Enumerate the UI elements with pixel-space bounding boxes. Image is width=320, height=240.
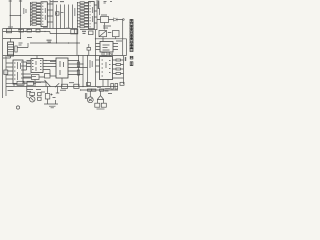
label R6 value <box>37 17 40 19</box>
resistor R19b <box>36 29 40 32</box>
label under K <box>97 108 105 110</box>
wire bus H2 <box>50 32 77 34</box>
resistor R5 <box>32 14 36 16</box>
wire U1 right pins <box>47 4 53 22</box>
label U2 pin numbers <box>90 3 93 27</box>
label 220V <box>8 90 14 92</box>
label R21 <box>32 76 36 78</box>
node J9 <box>87 55 88 56</box>
resistor R8 <box>32 23 36 25</box>
label below relay <box>103 26 111 28</box>
node terminal T1 <box>123 19 125 21</box>
wire main bus H1 <box>3 31 50 33</box>
wire U5 bottom lead <box>61 78 63 87</box>
label R14 value <box>85 17 88 19</box>
wire mid vertical D <box>68 5 70 29</box>
resistor R22 <box>77 62 79 67</box>
wire U6 bottom pins <box>103 80 108 87</box>
label K1 <box>101 14 107 16</box>
label under S <box>27 90 45 93</box>
wire left vertical V1 <box>9 0 12 30</box>
resistor R25 <box>116 64 121 66</box>
wire crystal <box>88 44 90 56</box>
wire battery link <box>17 43 28 48</box>
label R15 value <box>85 20 88 22</box>
label R4 value <box>37 11 40 13</box>
wire mid vertical A <box>56 5 58 29</box>
node J15 <box>82 86 83 87</box>
wire C7 leads <box>44 87 58 105</box>
resistor R14 <box>80 17 84 19</box>
label R5 value <box>37 14 40 16</box>
wire mid-bottom vertical c <box>87 56 89 87</box>
label page marker <box>125 57 127 61</box>
label K2 <box>108 32 112 34</box>
wire U3 pins <box>96 44 119 50</box>
terminal circle bottom <box>16 106 19 109</box>
wire left vertical V2 <box>19 0 22 34</box>
node J0 <box>10 15 11 16</box>
label R7 value <box>37 20 40 22</box>
op-amp U5 <box>56 58 68 78</box>
label bottom far <box>108 93 112 95</box>
resistor R17 <box>80 26 84 28</box>
resistor R30 <box>88 89 92 91</box>
wire U5 right pins <box>68 61 88 75</box>
transistor Q1 <box>30 97 35 102</box>
node J2 <box>25 31 26 32</box>
op-amp U4 <box>13 60 23 84</box>
wire battery bottom <box>3 56 11 58</box>
label C1 <box>61 12 64 14</box>
resistor R1 <box>32 2 36 4</box>
wire U4b top <box>36 56 38 59</box>
diode D1 <box>114 18 118 21</box>
node J10 <box>95 55 96 56</box>
wire U1 right bus <box>41 0 77 29</box>
label C2 <box>66 27 70 29</box>
capacitor C2b <box>89 31 94 35</box>
resistor R26 <box>116 68 121 70</box>
wire far-left vertical <box>2 29 4 99</box>
wire battery top <box>3 34 21 43</box>
wire right vertical G <box>126 39 128 56</box>
switch S2 <box>27 81 34 85</box>
caption vertical text column <box>130 19 133 65</box>
capacitor C4 <box>113 31 120 37</box>
wire U1 left bus <box>31 2 42 26</box>
wire to terminal <box>97 19 123 21</box>
node U1 row 4 <box>30 21 31 22</box>
node U1 row 1 <box>30 3 31 4</box>
node J16 <box>95 38 96 39</box>
ground G1 <box>49 106 56 108</box>
label R10 value <box>85 5 88 7</box>
crystal X1 <box>87 48 91 51</box>
node J1 <box>20 15 21 16</box>
resistor R6 <box>32 17 36 19</box>
wire mid vertical D2 <box>72 5 74 29</box>
label U5 <box>60 61 64 75</box>
resistor R21 <box>32 75 40 80</box>
transistor Q3 <box>97 91 104 99</box>
relay K4 <box>101 103 106 107</box>
wire bottom long H6 <box>6 86 118 88</box>
resistor R11 <box>80 8 84 10</box>
label right H5 <box>116 40 122 42</box>
node J12 <box>78 60 79 61</box>
label R9 value <box>85 2 88 4</box>
wire K leads <box>98 100 104 104</box>
switch S1 <box>17 81 24 85</box>
wire U6 right bus <box>121 56 124 84</box>
label R16 value <box>85 23 88 25</box>
switch arm S3 <box>55 83 59 87</box>
node J13 <box>82 63 83 64</box>
label 4.7k vertical right <box>90 60 92 68</box>
wire right vertical F <box>122 20 124 56</box>
wire left crossbar <box>10 15 20 17</box>
node U2 row 4 <box>77 20 78 21</box>
resistor R27 <box>116 73 121 75</box>
node J6 <box>76 42 77 43</box>
resistor R4 <box>32 11 36 13</box>
label U1 pin numbers <box>42 3 45 24</box>
wire U3 bottom pins <box>103 37 116 56</box>
resistor R9 <box>80 2 84 4</box>
op-amp U2 <box>89 2 95 29</box>
wire diagonal <box>45 80 51 87</box>
label bottom right <box>97 87 110 91</box>
resistor R19 <box>27 29 32 32</box>
resistor R23 <box>77 70 79 75</box>
transistor Q1 leads <box>27 96 34 101</box>
resistor R29 <box>74 84 79 88</box>
transistor Q2 <box>87 97 93 103</box>
wire cluster vertical <box>26 85 28 97</box>
resistor R13 <box>80 14 84 16</box>
label C2b <box>82 31 86 33</box>
label R12 value <box>85 11 88 13</box>
op-amp U3 <box>100 42 113 53</box>
node J8 <box>78 55 79 56</box>
capacitor C7 plus <box>51 94 53 96</box>
resistor R24 <box>116 59 121 61</box>
node C1 dot <box>56 13 57 14</box>
wire S row link <box>6 83 36 86</box>
relay K1 <box>101 17 109 23</box>
wire long H4 <box>3 55 127 57</box>
label under U1 <box>43 26 48 28</box>
resistor R32 <box>100 89 104 91</box>
wire mid-bottom vertical d <box>95 56 97 87</box>
resistor R18 <box>19 29 24 32</box>
label U3 <box>103 45 110 50</box>
node J6b <box>76 33 77 34</box>
resistor R3 <box>32 8 36 10</box>
relay K2 <box>99 31 107 37</box>
wire bus H0 <box>3 28 41 30</box>
capacitor C7b <box>38 93 42 96</box>
label right of U2 vertical <box>99 8 101 15</box>
wire bottom H7 <box>80 89 118 91</box>
capacitor C7 <box>45 94 50 100</box>
label above H1 <box>8 27 31 29</box>
wire mid-bottom vertical b <box>82 56 84 87</box>
node U2 row 2 <box>77 8 78 9</box>
wire right vertical bus <box>96 0 98 30</box>
capacitor C6 <box>102 52 107 55</box>
relay K2 bar <box>99 31 107 37</box>
wire U5 left pins <box>50 61 56 63</box>
wire R21 link <box>23 76 45 78</box>
battery plates <box>8 45 14 55</box>
label top right block <box>98 1 100 10</box>
wire mid vertical H <box>95 30 97 56</box>
resistor R16 <box>80 23 84 25</box>
wire U6 left pins <box>96 60 100 72</box>
capacitor C10 <box>87 83 91 86</box>
label R2 value <box>37 5 40 7</box>
label R8 value <box>37 23 40 25</box>
label R20 <box>47 40 52 42</box>
label R11 value <box>85 8 88 10</box>
wire K1 bottom stub <box>104 23 106 30</box>
node J14 <box>80 89 81 90</box>
resistor R12 <box>80 11 84 13</box>
node U2 row 5 <box>77 26 78 27</box>
node J3 <box>33 31 34 32</box>
label C3 <box>19 43 23 45</box>
capacitor C9 <box>115 84 118 90</box>
wire bottom-left bus <box>5 56 7 96</box>
wire U4b bottom vertical <box>35 80 46 87</box>
wire U2 bottom <box>80 29 97 31</box>
node J5b <box>68 42 69 43</box>
capacitor C1 <box>56 12 59 15</box>
relay K3 <box>95 103 100 107</box>
capacitor C7c <box>38 97 42 100</box>
label U4b pins <box>32 61 42 72</box>
resistor R31 <box>92 89 96 91</box>
wire U4b right pins <box>43 61 56 77</box>
wire stub S3 <box>56 87 59 94</box>
node U2 row 3 <box>77 14 78 15</box>
wire U4 right pins <box>23 62 46 82</box>
resistor R2 <box>32 5 36 7</box>
label U4 pins <box>14 62 23 80</box>
resistor R28 <box>62 84 68 88</box>
capacitor C5b <box>45 74 51 79</box>
label U6 <box>102 60 111 76</box>
label R3 value <box>37 8 40 10</box>
wire mid vertical C <box>64 5 66 29</box>
wire U6 right pins <box>113 60 124 78</box>
node U1 row 3 <box>30 15 31 16</box>
node U2 row 1 <box>77 2 78 3</box>
label 4.7k vertical <box>24 8 26 14</box>
node J11 <box>20 38 21 39</box>
label C7 <box>53 97 56 99</box>
label S row <box>35 82 41 84</box>
label R13 value <box>85 14 88 16</box>
capacitor C5 <box>4 70 8 75</box>
wire mid vertical E <box>76 30 78 56</box>
resistor R15 <box>80 20 84 22</box>
node J7 <box>45 60 46 61</box>
battery B1 <box>8 42 14 56</box>
wire U4b left pins <box>27 61 32 71</box>
terminal small box <box>120 82 124 85</box>
wire U4 left pins <box>6 63 13 79</box>
label IC type vertical <box>74 8 76 16</box>
label R1 value <box>37 2 40 4</box>
fuse F1 <box>7 29 12 33</box>
label mid sparse <box>27 37 32 39</box>
node J4 <box>44 31 45 32</box>
capacitor C8 <box>111 84 114 90</box>
op-amp U1 <box>41 2 47 27</box>
resistor R10 <box>80 5 84 7</box>
wire U2 left bus <box>78 2 89 30</box>
node J5 <box>56 42 57 43</box>
capacitor C2 <box>71 29 78 34</box>
label top right small <box>104 2 113 4</box>
wire right H5 <box>95 38 127 40</box>
wire stub pair <box>85 93 87 99</box>
wire mid-bottom vertical a <box>78 56 80 87</box>
diode D2 <box>110 53 113 56</box>
wire mid H3 <box>30 42 80 44</box>
capacitor C3 <box>15 46 17 52</box>
wire U2 right pins <box>94 5 97 23</box>
wire mid vertical A ext <box>56 29 58 44</box>
transistor Q2 leads <box>89 91 93 101</box>
label R28 value <box>60 83 74 91</box>
label top center <box>50 1 64 3</box>
op-amp U4b <box>31 59 43 73</box>
resistor R33 <box>30 92 35 95</box>
wire mid vertical B <box>60 5 62 29</box>
node U1 row 2 <box>30 9 31 10</box>
resistor R7 <box>32 20 36 22</box>
op-amp U6 <box>100 57 113 80</box>
label R17 value <box>85 26 88 28</box>
